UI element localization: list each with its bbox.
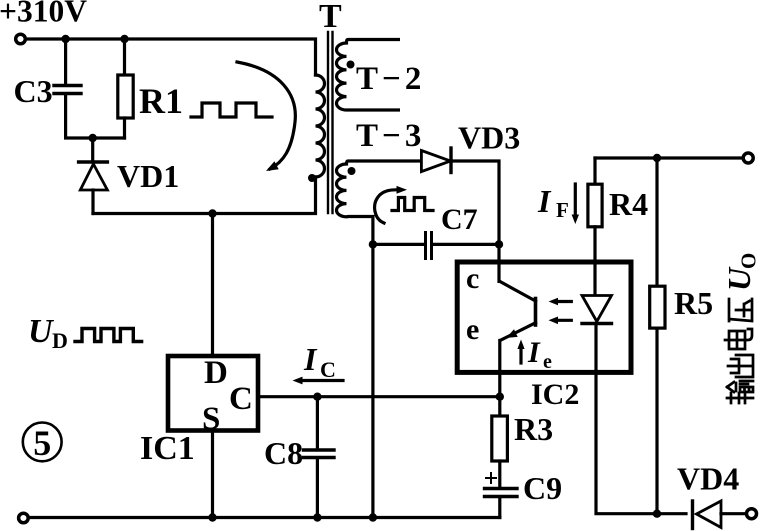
svg-text:S: S <box>202 401 220 437</box>
svg-text:C: C <box>320 357 336 382</box>
svg-text:e: e <box>543 351 552 373</box>
svg-text:VD1: VD1 <box>117 158 179 194</box>
svg-text:D: D <box>204 355 228 391</box>
svg-text:+310V: +310V <box>0 0 87 29</box>
svg-text:R1: R1 <box>139 81 183 121</box>
svg-text:T−3: T−3 <box>356 118 425 154</box>
svg-text:VD4: VD4 <box>677 461 739 497</box>
svg-text:F: F <box>556 198 569 222</box>
svg-text:I: I <box>527 336 541 369</box>
svg-text:c: c <box>466 262 479 295</box>
svg-text:D: D <box>52 328 68 353</box>
svg-text:U: U <box>28 313 55 350</box>
svg-text:I: I <box>303 341 318 377</box>
svg-text:T: T <box>319 0 342 35</box>
svg-text:O: O <box>737 253 760 269</box>
svg-text:IC1: IC1 <box>140 430 195 467</box>
svg-text:VD3: VD3 <box>458 120 520 156</box>
svg-text:R5: R5 <box>674 285 713 321</box>
svg-text:C: C <box>229 381 253 417</box>
svg-text:R3: R3 <box>514 411 553 447</box>
svg-text:T−2: T−2 <box>356 61 425 97</box>
svg-text:e: e <box>466 313 479 346</box>
svg-text:C9: C9 <box>523 470 562 506</box>
svg-text:5: 5 <box>33 423 51 463</box>
svg-text:R4: R4 <box>609 186 648 222</box>
svg-text:C3: C3 <box>14 73 53 109</box>
svg-text:I: I <box>537 183 552 219</box>
svg-text:C8: C8 <box>264 435 303 471</box>
svg-text:C7: C7 <box>441 203 478 236</box>
svg-text:IC2: IC2 <box>531 378 579 411</box>
